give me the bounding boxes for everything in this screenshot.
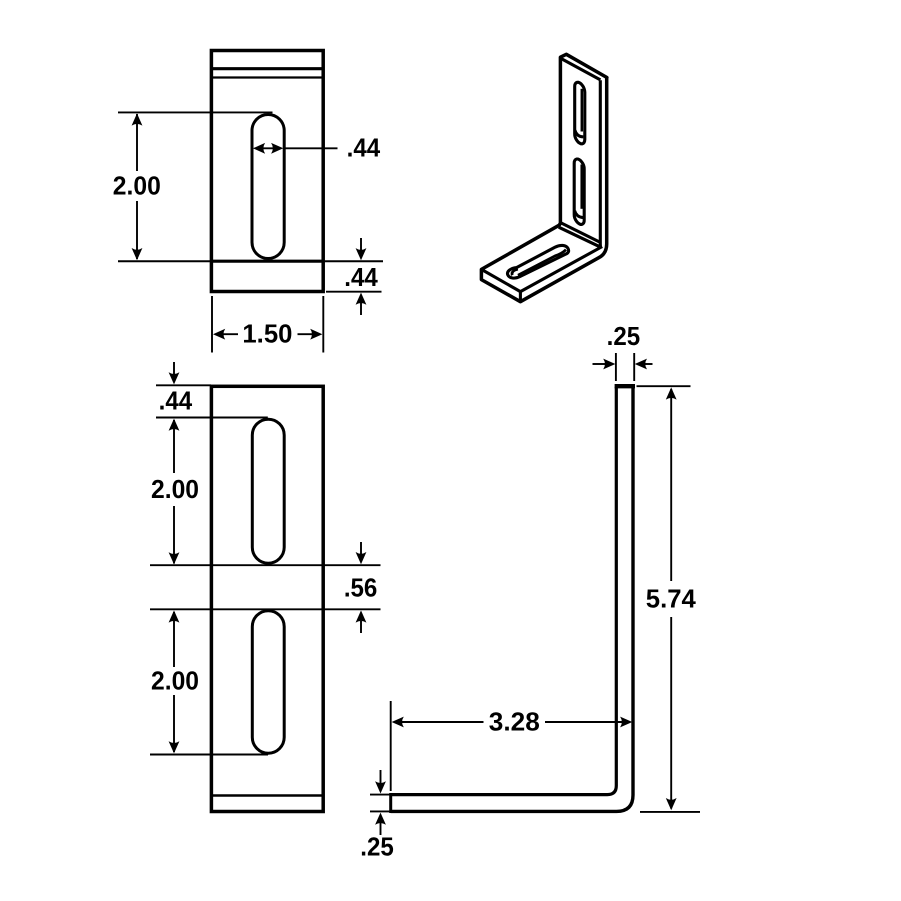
dimension 2.00a upper segment xyxy=(173,420,175,473)
dimension 1.50 right shaft xyxy=(298,333,320,335)
dimension 1.50 left shaft xyxy=(216,333,238,335)
dimension .56 arrow down xyxy=(356,552,367,564)
side view top end cap xyxy=(615,384,635,388)
dimension 2.00 (top view) extension line top xyxy=(118,111,273,113)
dimension .56 upper shaft xyxy=(360,542,362,554)
extension line slot2 bottom xyxy=(150,754,268,756)
dimension 3.28 arrow right xyxy=(620,717,632,728)
iso leg slot 2 outer xyxy=(574,159,584,224)
front view bend line xyxy=(211,794,323,796)
dimension 2.00a lower segment xyxy=(173,506,175,564)
dimension .44 slot width shaft xyxy=(256,147,280,149)
iso leg slot 1 inner wall xyxy=(581,89,584,132)
side view outer profile xyxy=(391,387,633,811)
iso bend tangent upper xyxy=(561,223,600,243)
top view plate outline xyxy=(211,51,323,292)
dimension 2.00b arrow down xyxy=(169,741,180,753)
dimension .25 (top) left shaft xyxy=(593,363,606,365)
dimension .44 (front view) arrow down xyxy=(169,372,180,384)
dimension 5.74 upper segment xyxy=(670,389,672,581)
dimension .25 (bottom) extension line bottom xyxy=(370,810,391,812)
dimension .25 (bottom) lower shaft xyxy=(380,823,382,835)
dimension .44 (top view right) lower shaft xyxy=(360,303,362,315)
iso leg slot 1 bottom wall crescent xyxy=(575,130,584,137)
dimension .25 (bottom) upper shaft xyxy=(380,770,382,783)
dimension .25 (top) right shaft xyxy=(645,363,653,365)
dimension 3.28 arrow left xyxy=(392,717,404,728)
iso base slot outer xyxy=(508,245,569,278)
dimension .56 lower shaft xyxy=(360,621,362,633)
dimension .56 arrow up xyxy=(356,610,367,622)
iso leg slot 1 outer xyxy=(575,82,585,144)
dimension 1.50 extension line left xyxy=(211,296,213,353)
svg-text:.25: .25 xyxy=(607,321,641,351)
dimension .25 (top) extension line left xyxy=(615,353,617,381)
top view bend line thick segment xyxy=(211,260,323,263)
svg-text:3.28: 3.28 xyxy=(489,706,540,736)
dimension 5.74 arrow up xyxy=(666,387,677,399)
top view vertical-leg front edge line xyxy=(211,67,323,70)
dimension 2.00a arrow down xyxy=(169,552,180,564)
side view left end cap xyxy=(389,793,392,813)
dimension 2.00b upper segment xyxy=(173,612,175,667)
svg-text:2.00: 2.00 xyxy=(151,474,199,504)
svg-text:2.00: 2.00 xyxy=(113,171,161,201)
top view slot xyxy=(252,115,284,259)
iso base slot left wall arc xyxy=(512,269,518,275)
svg-text:.25: .25 xyxy=(360,831,394,861)
iso bend tangent lower xyxy=(559,227,601,247)
dimension .44 slot width arrow left xyxy=(253,143,265,154)
dimension 1.50 arrow right xyxy=(310,329,322,340)
iso bracket silhouette xyxy=(481,54,607,301)
dimension .25 (bottom) extension line top xyxy=(370,794,391,796)
svg-text:2.00: 2.00 xyxy=(151,666,199,696)
dimension 5.74 extension line bottom xyxy=(640,811,700,813)
front view plate outline xyxy=(211,386,323,811)
dimension 2.00 (top view) arrow down xyxy=(132,248,143,260)
dimension .25 (bottom) arrow down xyxy=(375,781,386,793)
dimension 2.00b arrow up xyxy=(169,610,180,622)
side view inner profile xyxy=(391,387,617,795)
dimension .25 (top) arrow right-pointing xyxy=(603,359,615,370)
iso base front-left top edge xyxy=(481,269,520,291)
svg-text:5.74: 5.74 xyxy=(646,584,697,614)
dimension 5.74 arrow down xyxy=(666,798,677,810)
extension line slot2 top (long) xyxy=(150,608,381,610)
dimension .44 (front view) extension line top xyxy=(156,384,211,386)
dimension .44 slot width arrow right xyxy=(271,143,283,154)
dimension 5.74 extension line top xyxy=(637,385,691,387)
iso front-top edge xyxy=(561,58,601,80)
front view slot 2 xyxy=(252,611,284,754)
svg-text:.56: .56 xyxy=(344,572,378,602)
iso leg slot 2 inner wall xyxy=(580,165,583,209)
svg-text:1.50: 1.50 xyxy=(242,319,292,349)
dimension 2.00 (top view) line upper segment xyxy=(136,114,138,171)
dimension 1.50 arrow left xyxy=(213,329,225,340)
dimension 2.00a arrow up xyxy=(169,419,180,431)
dimension 1.50 extension line right xyxy=(322,296,324,353)
dimension 5.74 lower segment xyxy=(670,617,672,809)
dimension 3.28 extension line left xyxy=(390,701,392,791)
extension line slot1 bottom (long) xyxy=(150,564,381,566)
iso base slot inner wall xyxy=(518,250,566,276)
front view slot 1 xyxy=(252,419,284,563)
dimension 2.00 (top view) arrow up xyxy=(132,113,143,125)
dimension .44 slot width leader xyxy=(284,147,338,149)
dimension .44 (top view right) arrow down xyxy=(356,248,367,260)
dimension .25 (bottom) arrow up xyxy=(375,813,386,825)
extension line slot1 top xyxy=(156,417,268,419)
top view bend line / extension line (long) xyxy=(118,260,383,262)
svg-text:.44: .44 xyxy=(344,262,378,292)
svg-text:.44: .44 xyxy=(347,133,381,163)
dimension .25 (top) extension line right xyxy=(633,353,635,381)
dimension .44 (top view right) arrow up xyxy=(356,293,367,305)
svg-text:.44: .44 xyxy=(159,386,193,416)
dimension 3.28 left shaft xyxy=(394,721,484,723)
iso base front corner cap xyxy=(519,292,522,302)
dimension 2.00 (top view) line lower segment xyxy=(136,201,138,259)
dimension 2.00b lower segment xyxy=(173,695,175,752)
dimension .44 (front view) upper shaft xyxy=(173,362,175,374)
dimension 3.28 right shaft xyxy=(545,721,629,723)
top view bend tangent line xyxy=(211,76,323,78)
iso front-right edge and base front-right top edge xyxy=(520,80,600,291)
iso leg slot 2 bottom wall crescent xyxy=(575,211,584,218)
dimension .25 (top) arrow left-pointing xyxy=(635,359,647,370)
dimension .44 (top view right) extension line xyxy=(326,291,382,293)
dimension .44 (top view right) upper shaft xyxy=(360,238,362,250)
